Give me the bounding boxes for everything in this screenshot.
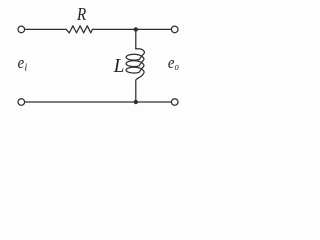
- wire top right: [92, 28, 171, 30]
- svg-text:L: L: [113, 56, 125, 77]
- wire top left: [25, 28, 67, 30]
- terminal output top: [171, 26, 178, 33]
- terminal input top: [18, 26, 25, 33]
- node junction bottom: [134, 100, 138, 104]
- wire bottom: [25, 101, 172, 103]
- inductor L coil: [126, 29, 144, 102]
- terminal output bottom: [171, 99, 178, 106]
- svg-text:i: i: [24, 63, 27, 74]
- svg-text:o: o: [175, 62, 179, 73]
- resistor R: [66, 26, 92, 33]
- node junction top: [134, 27, 138, 31]
- svg-text:R: R: [76, 4, 86, 24]
- terminal input bottom: [18, 99, 25, 106]
